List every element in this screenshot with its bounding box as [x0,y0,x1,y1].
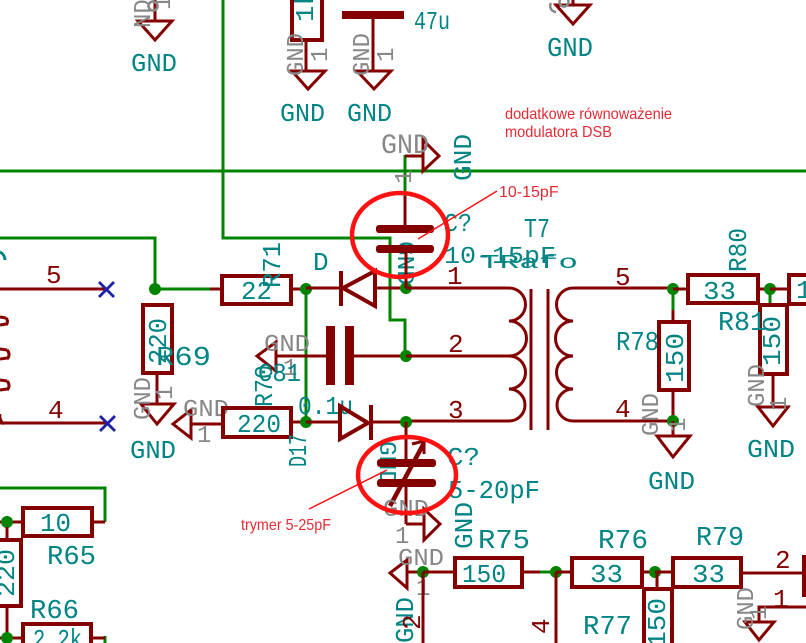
svg-text:1: 1 [153,386,180,400]
trimmer capacitor C? 10-15pF [376,196,556,288]
svg-text:GND: GND [280,99,325,129]
svg-text:33: 33 [590,560,623,590]
svg-text:GND: GND [284,33,311,76]
svg-text:5: 5 [615,263,631,293]
svg-text:33: 33 [692,560,725,590]
svg-text:1: 1 [197,423,211,450]
junction node R75 left [417,566,429,578]
no-connect X pin5 [99,282,114,297]
junction node R78 bottom [667,415,679,427]
ground below R69 [130,373,180,466]
svg-text:GND: GND [648,467,695,497]
annotation ellipse trimmer2 [358,437,456,513]
junction node row1 trimmer [400,282,412,294]
wire row5 right node segments [540,571,556,574]
svg-text:2: 2 [398,614,428,630]
ground symbol above trimmer C? [381,131,439,184]
svg-text:GND: GND [639,393,666,436]
svg-text:1: 1 [666,418,693,432]
wire pin 4 going down [527,572,557,643]
svg-text:4: 4 [48,396,64,426]
wire R78 top stub [672,289,675,310]
wire trimmer1 top to GND symbol [404,155,407,196]
svg-text:GND: GND [131,49,177,79]
svg-text:D: D [313,248,329,278]
svg-text:5: 5 [46,261,62,291]
svg-text:GND: GND [347,99,392,129]
junction node R80 right [764,283,776,295]
junction node R76 right [649,566,661,578]
resistor R81 [718,305,788,374]
junction node R71 left [149,283,161,295]
svg-text:GND: GND [381,131,429,162]
ground below 47u [347,33,401,129]
ground left of R70 [173,397,229,450]
svg-text:2: 2 [775,546,791,576]
ground below top resistor [280,33,335,129]
svg-text:2: 2 [448,330,464,360]
junction node R65 left [1,516,13,528]
svg-text:GND: GND [130,436,176,466]
junction node T7 pin5 right [667,283,679,295]
annotation leader line 10-15pF [418,191,497,239]
svg-text:R69: R69 [156,344,211,374]
svg-text:modulatora DSB: modulatora DSB [505,124,612,141]
svg-text:R76: R76 [598,527,648,557]
svg-text:1: 1 [308,48,335,62]
wire vertical R71 out to R70 row [305,289,308,422]
ground below R78 [639,393,695,497]
IC body fragments at left edge [0,252,9,424]
svg-text:T7: T7 [524,216,550,246]
node IC pin 5 line with label [0,261,106,291]
svg-text:5-20pF: 5-20pF [448,476,540,506]
no-connect X pin4 [100,416,115,431]
wire R81 top stub [769,289,772,305]
svg-text:1: 1 [151,0,178,10]
svg-text:10: 10 [40,509,71,539]
svg-text:GND: GND [547,35,593,65]
component fragment right edge bottom [804,557,806,595]
junction node pin4 bottom [550,566,562,578]
junction node row2 [400,350,412,362]
junction node R66 left [1,632,13,643]
svg-text:TRafo: TRafo [480,252,578,274]
ground right of trimmer2 [383,497,440,551]
resistor R66 [0,597,105,643]
svg-text:GND: GND [747,435,795,465]
diode D top row1 [306,248,406,306]
resistor 220 left edge [0,527,22,638]
svg-text:33: 33 [703,277,736,307]
resistor R80 [673,228,770,307]
resistor R78 [616,310,691,421]
resistor R65 [0,508,105,573]
svg-text:C81: C81 [258,359,301,389]
resistor R71 [210,242,306,307]
svg-text:dodatkowe równoważenie: dodatkowe równoważenie [505,106,672,123]
svg-text:10-15pF: 10-15pF [499,184,559,201]
ground top middle-right [547,0,593,65]
svg-text:R79: R79 [696,524,744,554]
svg-text:1: 1 [796,276,806,306]
junction node row3 trimmer [400,416,412,428]
svg-text:GND: GND [264,332,310,359]
svg-text:4: 4 [527,618,557,634]
capacitor 47u top edge [342,7,450,71]
svg-text:1k: 1k [291,0,321,22]
wire down from R75 node [422,572,425,643]
wire left horizontal to R69 node [0,238,210,289]
svg-text:R71: R71 [258,242,288,288]
svg-text:R66: R66 [30,597,79,627]
ground top left [131,0,178,79]
node IC pin 4 line with label [0,396,107,426]
trimmer capacitor C? 5-20pF [372,422,540,524]
wire R66 bottom stub [104,636,107,643]
svg-text:150: 150 [643,598,673,643]
svg-text:R81: R81 [718,309,766,339]
capacitor C81 [258,326,406,422]
ground left of R75 row [390,546,444,603]
svg-text:GND: GND [350,33,377,76]
junction node R70 right [300,416,312,428]
wire GND bus horizontal main [0,170,806,173]
svg-text:220: 220 [0,549,22,597]
annotation ellipse trimmer1 [352,193,448,277]
diode D17 [284,405,406,467]
svg-text:4: 4 [615,395,631,425]
resistor R76 [556,527,655,590]
svg-text:2.2k: 2.2k [33,625,82,643]
wire vertical from top [223,0,405,356]
resistor 1k top edge [291,0,322,40]
ground left of C81 [257,332,327,383]
transformer T7 [406,216,673,430]
svg-text:1: 1 [374,48,401,62]
svg-text:1: 1 [447,262,463,292]
resistor R79 [655,524,806,590]
svg-text:D17: D17 [284,434,314,467]
svg-text:R65: R65 [47,543,96,573]
ground below R81 [745,364,795,465]
resistor R70 [223,365,306,440]
resistor R75 [423,527,540,590]
svg-text:220: 220 [237,410,281,440]
svg-text:1: 1 [773,585,789,615]
resistor fragment right edge [770,275,806,306]
svg-text:trymer 5-25pF: trymer 5-25pF [241,517,331,534]
pin 1 wire and ground bottom right [734,585,806,640]
svg-text:1: 1 [747,606,774,620]
svg-text:1: 1 [767,397,794,411]
resistor R77 [583,572,673,643]
junction node R71 right [300,283,312,295]
svg-text:3: 3 [448,396,464,426]
svg-text:R75: R75 [478,527,530,557]
wire R65 feedback loop [0,488,105,522]
svg-text:150: 150 [462,560,506,590]
annotation leader line trymer [309,470,387,509]
svg-text:GND: GND [449,134,479,181]
svg-text:1: 1 [392,170,419,184]
svg-text:150: 150 [661,333,691,383]
svg-text:R78: R78 [616,329,659,359]
svg-text:47u: 47u [414,7,450,37]
svg-text:GND: GND [450,502,480,549]
svg-text:R80: R80 [724,228,754,272]
resistor R69 [143,305,211,374]
svg-text:R77: R77 [583,613,632,643]
